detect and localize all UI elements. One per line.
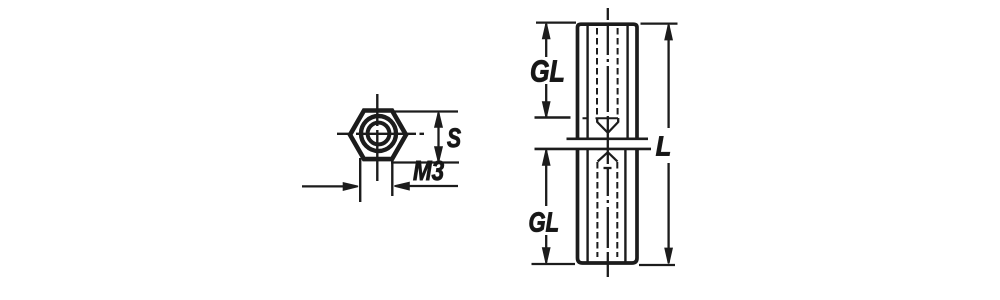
vertical centerline of hex end view <box>376 94 378 181</box>
GL top lower extension line <box>535 116 571 118</box>
lower right solid thread line <box>624 150 626 262</box>
standoff body upper piece outline <box>578 24 638 139</box>
extension line top right <box>641 22 678 24</box>
left thread extension line below hex <box>359 158 361 202</box>
break line lower <box>535 148 652 151</box>
outer thread circle <box>361 116 396 151</box>
extension line bottom right <box>639 264 675 266</box>
upper left solid thread line <box>586 26 588 138</box>
inner hole circle <box>368 123 390 145</box>
centerline cross tick <box>604 167 612 169</box>
extension line bottom left <box>532 263 576 265</box>
extension line top left <box>536 21 576 23</box>
lower left hidden hole line <box>596 162 598 257</box>
lower drill point cone <box>598 152 618 161</box>
M3 left leader arrow <box>302 183 358 190</box>
vertical centerline of side view <box>607 8 609 277</box>
extension line top of S dimension <box>393 110 458 112</box>
GL bottom dimension line with arrows <box>543 150 550 263</box>
svg-text:GL: GL <box>529 207 560 238</box>
upper drill point cone <box>597 122 618 133</box>
L dimension line with arrows <box>665 25 672 264</box>
lower right hidden hole line <box>616 162 618 257</box>
svg-text:M3: M3 <box>413 156 444 187</box>
upper hole cup walls <box>597 118 618 123</box>
dimension line S with arrows <box>435 113 442 162</box>
upper left hidden hole line <box>596 28 598 118</box>
horizontal centerline of hex end view <box>337 133 424 135</box>
break line upper <box>567 138 649 141</box>
svg-text:S: S <box>447 124 461 154</box>
svg-text:L: L <box>656 131 671 162</box>
GL top dimension line with arrows <box>543 24 550 118</box>
extension line bottom of S dimension <box>391 161 459 163</box>
thread depth line in upper hole <box>583 117 619 119</box>
lower left solid thread line <box>586 150 588 262</box>
upper right hidden hole line <box>617 28 619 118</box>
M3 right leader arrow <box>395 183 459 190</box>
svg-text:GL: GL <box>530 53 565 88</box>
hex nut outline <box>350 111 406 160</box>
right thread extension line below hex <box>391 158 393 196</box>
standoff body lower piece outline <box>578 150 638 263</box>
upper right solid thread line <box>626 26 628 138</box>
